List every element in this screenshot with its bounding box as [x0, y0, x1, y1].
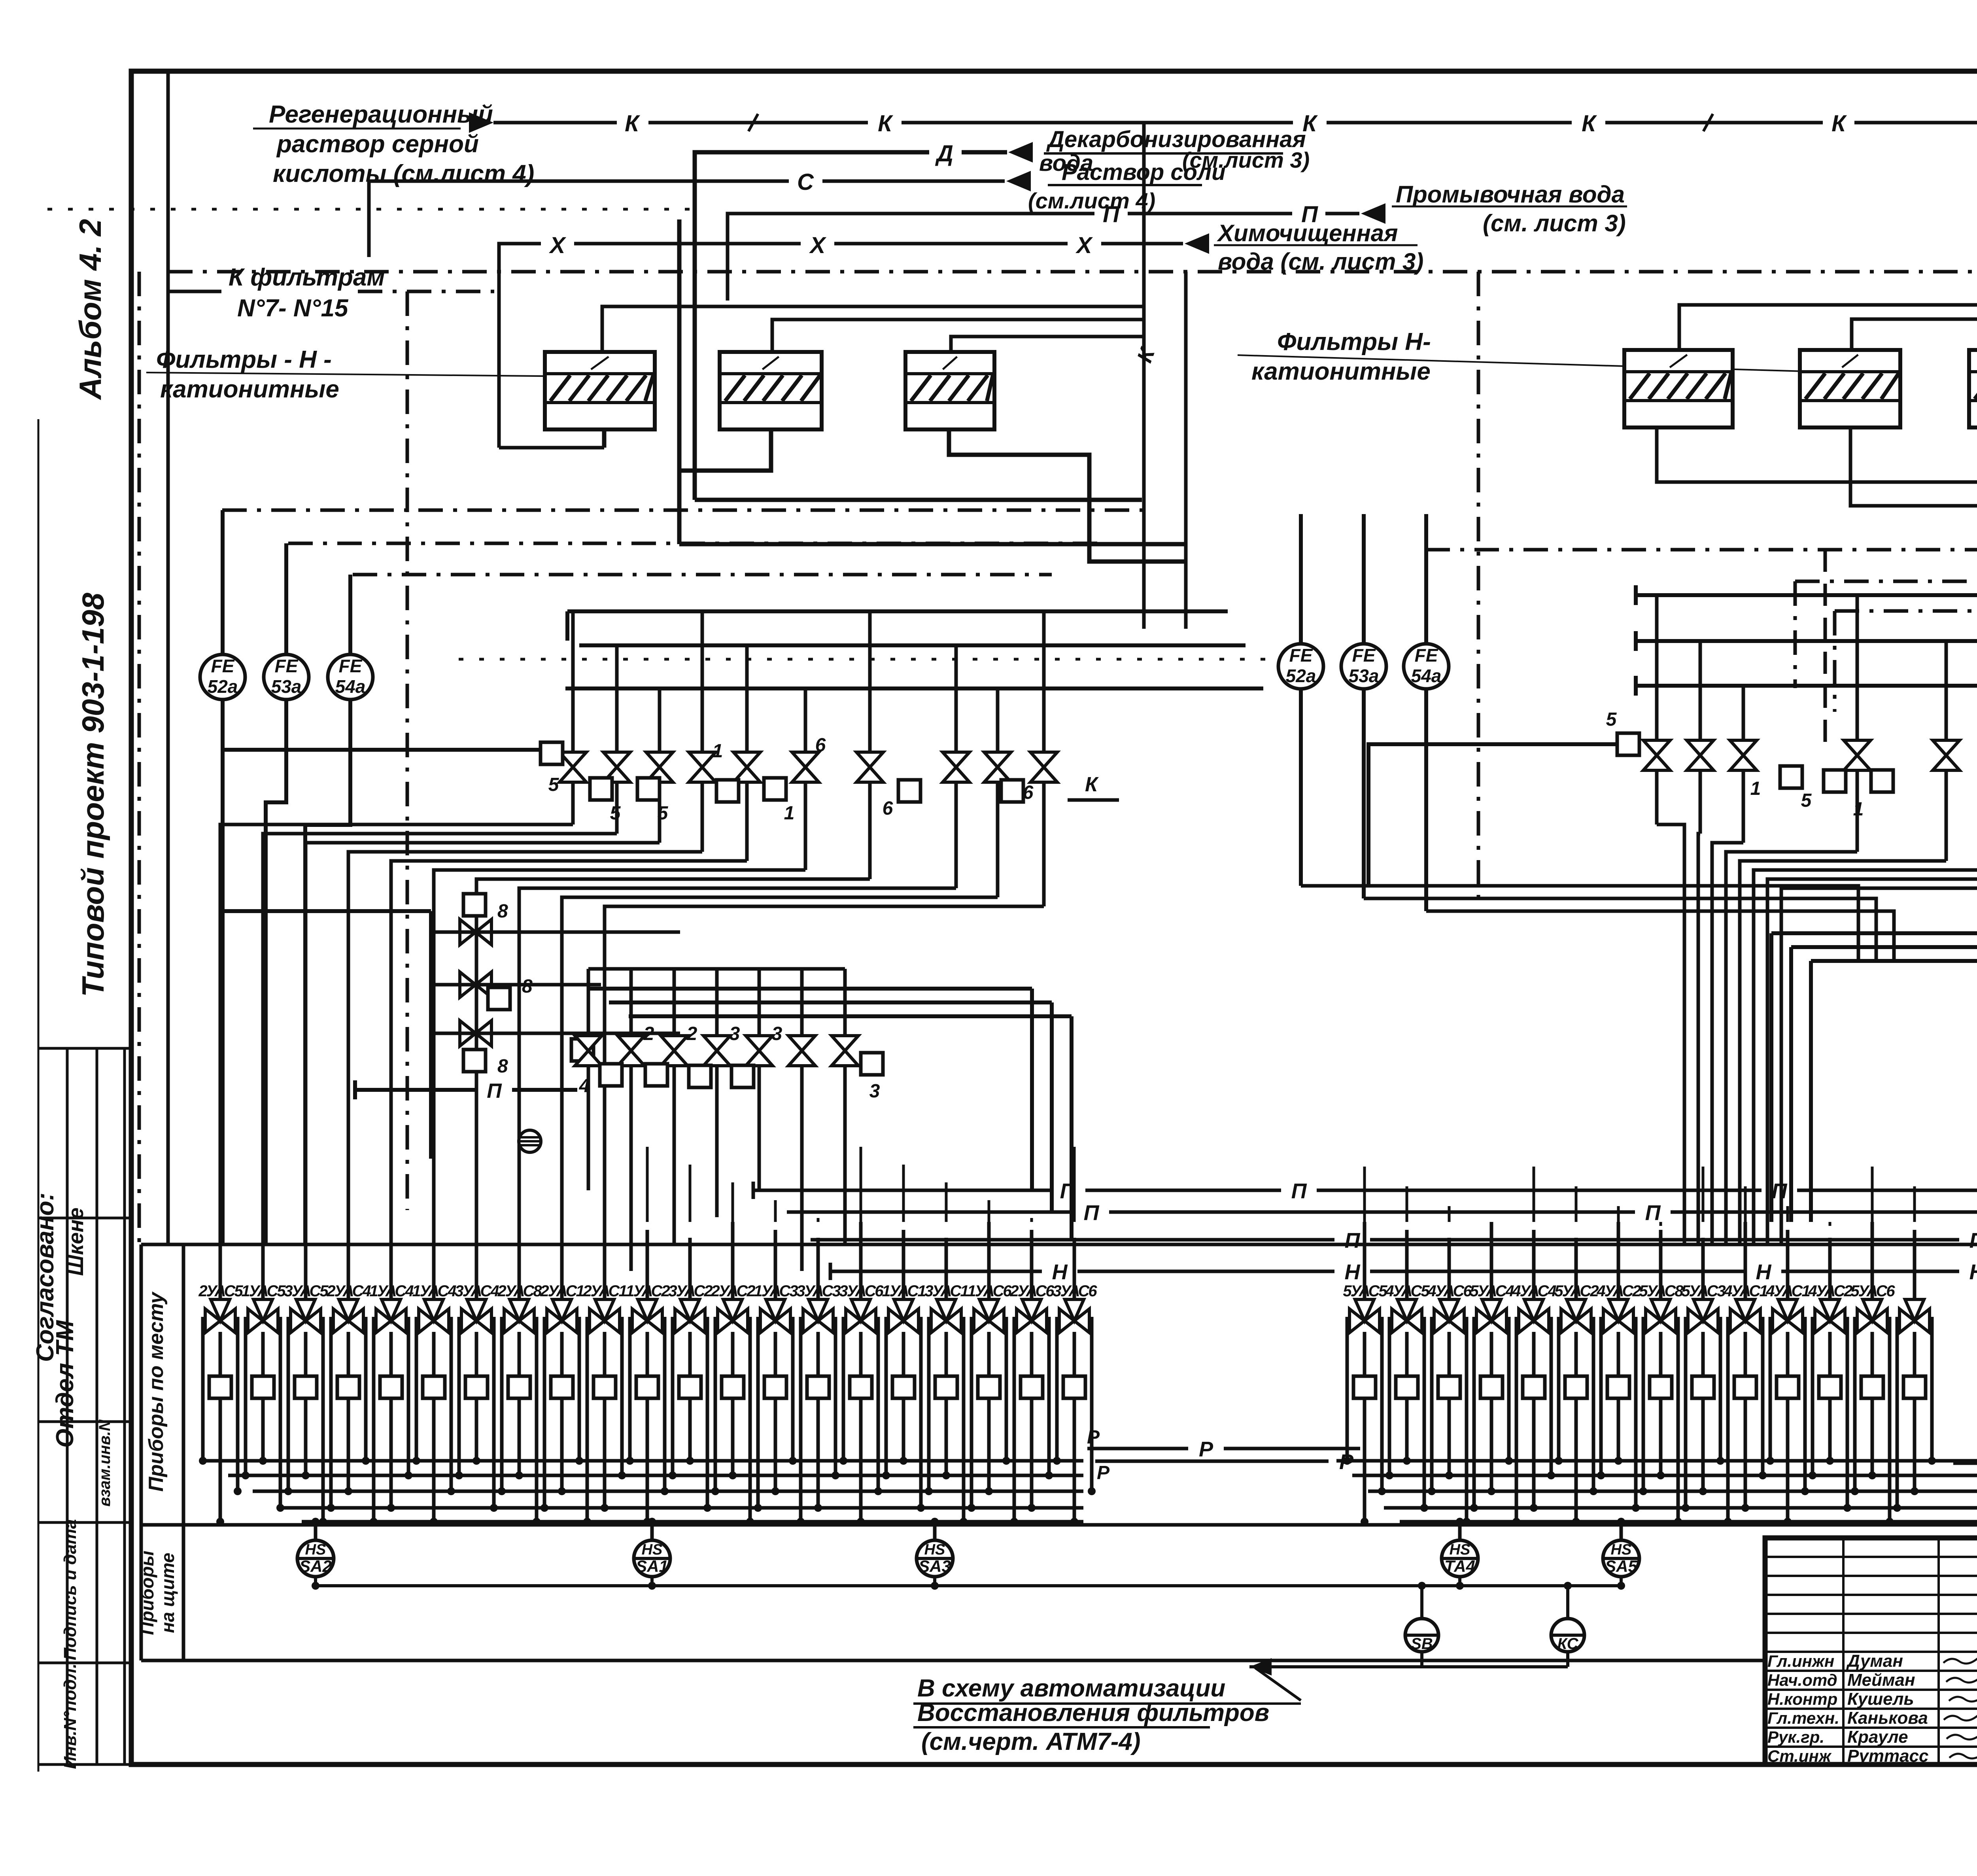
FE53a-1 line: [266, 543, 286, 1244]
stair rband1 4: [1740, 861, 1946, 1244]
svg-text:Н: Н: [1345, 1260, 1361, 1284]
sq8 L2: [488, 987, 510, 1010]
svg-text:Регенерационный: Регенерационный: [269, 101, 493, 128]
stair rband1 3: [1726, 852, 1857, 1244]
bus left 3: [277, 1506, 1083, 1510]
svg-text:Д: Д: [935, 141, 953, 166]
rband1 drop 4: [1945, 770, 1948, 861]
valve band1 2: [646, 752, 673, 782]
svg-text:Н: Н: [1969, 1260, 1977, 1284]
stair rband1 0: [1657, 825, 1684, 1244]
valve band2 6: [832, 1036, 858, 1066]
svg-text:Химочищенная: Химочищенная: [1217, 220, 1398, 246]
HS stub SA1: [650, 1576, 654, 1586]
svg-text:ТА4: ТА4: [1444, 1557, 1475, 1575]
title sig row 8: [1765, 1708, 1977, 1710]
svg-text:SA5: SA5: [1605, 1557, 1637, 1575]
svg-text:Ст.инж: Ст.инж: [1767, 1747, 1832, 1765]
title sig row 4: [1765, 1632, 1977, 1634]
svg-text:Фильтры - Н -: Фильтры - Н -: [156, 346, 332, 373]
valve rband1 0: [1643, 740, 1670, 770]
band1 feed 8: [996, 688, 1000, 753]
collector P3: [811, 1238, 1334, 1242]
band2 drop 4: [758, 1066, 761, 1190]
dashdot r1: [1795, 580, 1977, 583]
svg-text:Типовой проект 903-1-198: Типовой проект 903-1-198: [76, 592, 110, 997]
filter F3: [905, 352, 994, 429]
FE mid line 0: [1299, 514, 1303, 886]
svg-text:Руттасс: Руттасс: [1847, 1746, 1928, 1766]
band2 upper d1: [1030, 989, 1034, 1190]
rband1 feed 0: [1655, 595, 1659, 741]
sq8 L3: [463, 1050, 486, 1072]
collector c3: [565, 686, 1263, 690]
title sig col 2: [1937, 1538, 1940, 1764]
svg-text:К: К: [625, 111, 640, 136]
svg-text:5: 5: [610, 803, 621, 824]
svg-text:52а: 52а: [1286, 666, 1316, 686]
band1 drop 0: [571, 782, 575, 825]
rmid h3: [1811, 961, 1977, 1240]
svg-text:Альбом 4. 2: Альбом 4. 2: [73, 219, 108, 401]
stair rband1 2: [1712, 843, 1743, 1244]
F4 bottom pipe: [1657, 427, 1977, 1210]
band2 drop 0: [587, 1066, 590, 1190]
svg-text:(см.черт. АТМ7-4): (см.черт. АТМ7-4): [921, 1728, 1141, 1755]
svg-text:FE: FE: [211, 656, 235, 676]
svg-text:6: 6: [815, 735, 826, 756]
stair band1 4: [391, 861, 747, 1244]
collector N left end: [829, 1263, 832, 1280]
filter F4: [1624, 350, 1733, 427]
valve band2 2: [661, 1036, 688, 1066]
rcollector c2: [1636, 639, 1977, 643]
K downfeed left2: [1184, 272, 1188, 629]
band2 drop 3: [715, 1066, 719, 1217]
svg-text:2: 2: [643, 1023, 654, 1044]
svg-text:1: 1: [1853, 799, 1864, 820]
dashdot st2: [288, 542, 1099, 545]
title sig row 9: [1765, 1727, 1977, 1729]
bottom valve R13: [1913, 1230, 1917, 1311]
title block outer: [1765, 1538, 1977, 1764]
HS stub SA3: [933, 1576, 936, 1586]
band1 feed 1: [615, 645, 619, 753]
svg-text:П: П: [1645, 1201, 1661, 1225]
dashdot frame vert: [138, 272, 141, 1244]
svg-text:3: 3: [772, 1023, 782, 1044]
band1 sq g: [1001, 780, 1023, 802]
bus right 2: [1368, 1490, 1977, 1493]
HS drop ТА4: [1458, 1522, 1462, 1540]
pipe K seg 2: [902, 121, 1293, 125]
stair band1 3: [348, 852, 702, 1244]
svg-text:8: 8: [497, 901, 508, 922]
stair rband1 5: [1754, 870, 1977, 1244]
FE mid line 1: [1362, 514, 1366, 898]
stair rband1 7: [1781, 888, 1977, 1244]
dash vert k1: [1824, 550, 1827, 743]
bus right 4: [1400, 1520, 1977, 1524]
rband1 feed 2: [1742, 686, 1745, 741]
arrow avto: [1249, 1658, 1272, 1676]
stair band1 5: [434, 870, 805, 1244]
valve band1 1: [603, 752, 630, 782]
valve band1 9: [1030, 752, 1057, 782]
band1 drop 5: [804, 782, 807, 870]
margin col line B: [96, 1048, 98, 1764]
pipe K seg 3: [1327, 121, 1572, 125]
band2 drop 1: [629, 1066, 633, 1271]
svg-text:8: 8: [497, 1056, 508, 1077]
arrow C: [1006, 171, 1031, 191]
arrow D: [1008, 142, 1033, 163]
svg-text:HS: HS: [1450, 1541, 1470, 1558]
collector K2 right: [1852, 319, 1977, 443]
svg-text:Шкене: Шкене: [64, 1208, 88, 1276]
collector R2: [1095, 1460, 1329, 1463]
title sig row 6: [1765, 1670, 1977, 1672]
band2 feed 0: [587, 969, 590, 1036]
X wrap to F1: [499, 446, 604, 450]
svg-text:SA1: SA1: [636, 1557, 668, 1575]
pipe K seg 1: [648, 121, 868, 125]
svg-text:Гл.техн.: Гл.техн.: [1767, 1709, 1839, 1727]
filter F6: [1969, 350, 1977, 427]
band1 feed 7: [954, 645, 958, 753]
dashdot vert mid: [1477, 272, 1480, 906]
sheet edge left: [38, 419, 40, 1772]
stair band1 2: [306, 843, 660, 1244]
FE54a-1 line: [305, 575, 350, 1244]
stair rband1 6: [1767, 879, 1977, 1244]
svg-text:FE: FE: [1352, 645, 1376, 666]
svg-text:HS: HS: [642, 1541, 663, 1558]
svg-text:53а: 53а: [1349, 666, 1379, 686]
rcollector c3: [1636, 684, 1977, 688]
valve band1 8: [984, 752, 1011, 782]
instrument FE54a-2: [1404, 644, 1449, 689]
valve band2 3: [703, 1036, 730, 1066]
pipe K seg 0: [493, 121, 617, 125]
title sig row 3: [1765, 1613, 1977, 1615]
FE52a-1 line: [221, 510, 225, 1244]
margin row 4: [38, 1521, 131, 1524]
band1 feed 5: [804, 688, 807, 753]
svg-text:FE: FE: [1415, 645, 1438, 666]
valve rband1 4: [1933, 740, 1960, 770]
rband1 feed 4: [1945, 641, 1948, 741]
band1 drop 2: [658, 782, 662, 843]
valve rband1 3: [1844, 740, 1871, 770]
svg-text:П: П: [1772, 1179, 1788, 1203]
dashdot r2: [1835, 609, 1977, 613]
svg-text:1: 1: [713, 741, 723, 762]
striped circle left: [519, 1130, 541, 1152]
svg-text:В схему автоматизации: В схему автоматизации: [917, 1675, 1225, 1702]
margin row 5: [38, 1662, 131, 1664]
dashdot r1 tail: [1794, 581, 1797, 688]
rmid d2: [1789, 947, 1793, 1222]
stair band1 9: [605, 906, 1044, 1244]
instrument FE54a-1: [328, 654, 373, 700]
valve band1 6: [856, 752, 883, 782]
svg-text:Н.контр: Н.контр: [1767, 1690, 1837, 1708]
svg-text:С: С: [797, 169, 814, 195]
collector P2: [787, 1210, 1074, 1214]
HS stub SA5: [1620, 1576, 1623, 1586]
svg-text:Промывочная вода: Промывочная вода: [1396, 181, 1625, 208]
svg-text:Р: Р: [1097, 1462, 1110, 1483]
instrument FE52a-1: [200, 654, 245, 700]
valve band1 3: [689, 752, 716, 782]
margin col line A: [66, 1048, 69, 1764]
pipe P: [728, 214, 1094, 301]
FE mid line 2: [1424, 514, 1428, 911]
svg-text:6: 6: [883, 798, 893, 819]
pribory divider: [141, 1523, 1977, 1527]
valve band2 4: [746, 1036, 773, 1066]
valve band2 5: [788, 1036, 815, 1066]
dotted line upper: [47, 208, 692, 211]
valve8 L1: [460, 919, 491, 945]
bus left 1: [228, 1474, 1083, 1477]
feed texture left: [219, 1147, 222, 1222]
svg-text:FE: FE: [275, 656, 299, 676]
collector K1 right: [1679, 305, 1977, 350]
pipe8 L1: [431, 930, 680, 934]
band1 sq f: [898, 780, 920, 802]
band1 drop 7: [954, 782, 958, 888]
rband1 sq5: [1617, 733, 1639, 755]
stair band1 7: [519, 888, 956, 1244]
svg-text:Рук.гр.: Рук.гр.: [1767, 1728, 1824, 1746]
svg-text:П: П: [1345, 1229, 1361, 1252]
SB KC bottom: [1249, 1665, 1568, 1668]
svg-text:П: П: [1103, 202, 1120, 227]
collector K1 left: [602, 306, 1144, 352]
band2 drop 2: [673, 1066, 676, 1244]
svg-text:Восстановления фильтров: Восстановления фильтров: [917, 1699, 1269, 1727]
rcollector c1: [1636, 593, 1977, 597]
dashdot st3: [353, 573, 1052, 577]
band1 sq d: [716, 780, 739, 802]
instrument HS/SA3: [917, 1540, 953, 1577]
svg-text:взам.инв.N: взам.инв.N: [96, 1419, 113, 1507]
band1 drop 4: [745, 782, 749, 861]
valve rband1 1: [1687, 740, 1714, 770]
svg-text:К: К: [1831, 111, 1847, 136]
svg-text:Канькова: Канькова: [1847, 1708, 1928, 1728]
title sig row 0: [1765, 1556, 1977, 1558]
svg-text:5: 5: [1606, 709, 1617, 730]
HS bottom line: [316, 1584, 1621, 1587]
collector c1 end: [565, 611, 569, 641]
svg-text:1: 1: [784, 803, 795, 824]
filter F5: [1800, 350, 1900, 427]
band2 sq5: [861, 1053, 883, 1075]
svg-text:катионитные: катионитные: [1251, 358, 1431, 385]
svg-text:Нач.отд: Нач.отд: [1767, 1671, 1837, 1689]
sq8 L1: [463, 894, 486, 916]
title sig col 1: [1842, 1538, 1845, 1764]
arrow regen: [469, 112, 493, 133]
HS stub ТА4: [1458, 1576, 1461, 1586]
margin row 3: [38, 1420, 131, 1423]
svg-text:54а: 54а: [1411, 666, 1442, 686]
pipe X: [499, 244, 541, 448]
dashdot main upper: [168, 270, 1977, 274]
band2 drop 5: [800, 1066, 804, 1271]
svg-text:кислоты (см.лист 4): кислоты (см.лист 4): [273, 160, 534, 187]
band2 upper d3: [1070, 1016, 1074, 1240]
valve band1 5: [792, 752, 819, 782]
dotted mid line: [459, 658, 1281, 661]
band2 upper h3: [629, 1014, 1072, 1018]
F3 bottom pipe: [949, 429, 1186, 562]
svg-text:П: П: [1969, 1229, 1977, 1252]
stair band1 6: [476, 879, 870, 1244]
arrow P: [1361, 203, 1385, 224]
title sig row 2: [1765, 1594, 1977, 1596]
svg-text:Н: Н: [1756, 1260, 1772, 1284]
bus right 1: [1352, 1474, 1977, 1477]
band2 sq3: [689, 1065, 711, 1087]
stair band1 1: [263, 834, 617, 1244]
instrument FE53a-1: [264, 654, 309, 700]
feed texture right: [1363, 1167, 1366, 1222]
pipe D: [695, 152, 929, 500]
valve8 L3: [460, 1021, 491, 1046]
rmid h1: [1771, 933, 1977, 1190]
svg-text:Мейман: Мейман: [1847, 1670, 1915, 1690]
instrument HS/SA1: [634, 1540, 670, 1577]
svg-text:К: К: [1085, 773, 1099, 796]
feed to cluster8: [219, 909, 431, 913]
svg-text:Х: Х: [809, 233, 827, 258]
F5 bottom pipe: [1850, 427, 1977, 830]
title sig row 1: [1765, 1575, 1977, 1577]
band1 feed 6: [868, 611, 872, 753]
pipe K seg 4: [1605, 121, 1823, 125]
rmid d3: [1809, 961, 1813, 1222]
rband1 drop 0: [1655, 770, 1659, 825]
rband1 sqc: [1871, 770, 1893, 792]
instrument HS/ТА4: [1442, 1540, 1478, 1577]
band1 feed 0: [571, 611, 575, 753]
svg-text:52а: 52а: [208, 676, 238, 697]
band2 feed 6: [843, 969, 847, 1036]
band1 feed 9: [1042, 611, 1046, 753]
HS drop SA3: [933, 1522, 937, 1540]
rband1 drop 2: [1742, 770, 1745, 843]
band2 feed 5: [800, 969, 804, 1036]
rmid h2: [1791, 947, 1977, 1212]
HS drop SA5: [1620, 1522, 1623, 1540]
dashdot vertical left: [406, 291, 409, 1210]
bus right 0: [1336, 1459, 1977, 1463]
F2 bottom pipe: [679, 429, 771, 471]
pipe C: [369, 181, 789, 257]
stub4 left: [571, 1039, 593, 1061]
band1 feed 4: [745, 645, 749, 753]
svg-text:Крауле: Крауле: [1847, 1727, 1908, 1747]
collector c2: [579, 643, 1246, 647]
pipe K seg 5: [1854, 121, 1977, 125]
svg-text:КС: КС: [1557, 1635, 1579, 1653]
margin row 2: [38, 1217, 131, 1220]
K downfeed left: [1142, 123, 1146, 629]
rband1 feed 3: [1856, 595, 1859, 741]
svg-text:HS: HS: [924, 1541, 945, 1558]
svg-text:К фильтрам: К фильтрам: [229, 264, 385, 291]
band1 K stub: [1068, 798, 1119, 802]
svg-text:на щите: на щите: [157, 1553, 178, 1633]
bus right 3: [1384, 1506, 1977, 1510]
valve band2 0: [575, 1036, 602, 1066]
instrument KC: [1551, 1619, 1584, 1652]
svg-text:Приборы: Приборы: [137, 1551, 157, 1635]
tick K 4320: [1703, 114, 1713, 131]
svg-text:Фильтры Н-: Фильтры Н-: [1277, 328, 1431, 356]
SB KC feeds: [1420, 1586, 1423, 1619]
margin row 1: [38, 1047, 131, 1050]
HS drop SA2: [314, 1522, 318, 1540]
svg-text:(см.лист 4): (см.лист 4): [1028, 188, 1155, 213]
svg-text:Приборы по месту: Приборы по месту: [145, 1291, 168, 1492]
svg-text:FE: FE: [339, 656, 363, 676]
band2 sq4: [731, 1065, 754, 1087]
band1 sq b: [590, 778, 612, 800]
svg-text:Подпись и дата: Подпись и дата: [60, 1519, 80, 1660]
valve band1 4: [733, 752, 760, 782]
bus left 0: [204, 1459, 1083, 1463]
band1 sq c: [637, 778, 660, 800]
band2 upper h1: [588, 987, 1032, 991]
rband1 drop 3: [1856, 770, 1859, 852]
svg-text:П: П: [1084, 1201, 1100, 1225]
pribory box left: [140, 1244, 143, 1660]
collector K2 left: [772, 320, 1144, 352]
svg-text:Думан: Думан: [1846, 1651, 1903, 1671]
margin col line C: [123, 1048, 126, 1764]
band2 sq1: [600, 1064, 622, 1086]
pipe8 L3: [431, 1032, 680, 1035]
bus left 2: [253, 1490, 1083, 1493]
HS drop SA1: [650, 1522, 654, 1540]
band2 upper h2: [609, 1000, 1052, 1004]
band1 drop 9: [1042, 782, 1046, 906]
valve rband1 2: [1730, 740, 1757, 770]
svg-text:HS: HS: [1611, 1541, 1632, 1558]
title sig row 7: [1765, 1689, 1977, 1691]
collector K3 left: [951, 337, 1144, 352]
svg-text:SA2: SA2: [299, 1557, 332, 1575]
svg-text:53а: 53а: [271, 676, 302, 697]
svg-text:Р: Р: [1199, 1437, 1213, 1461]
pribory bottom: [141, 1659, 1765, 1662]
svg-text:Гл.инжн: Гл.инжн: [1767, 1652, 1834, 1670]
svg-text:П: П: [487, 1080, 502, 1103]
rband1 sqa: [1780, 766, 1802, 788]
svg-text:Инв.N°подл.: Инв.N°подл.: [60, 1664, 80, 1769]
svg-text:HS: HS: [305, 1541, 326, 1558]
collector P1 left end: [752, 1182, 755, 1199]
HS stub SA2: [314, 1576, 317, 1586]
instrument HS/SA2: [297, 1540, 334, 1577]
svg-text:(см. лист 3): (см. лист 3): [1483, 210, 1626, 236]
filter F2: [720, 352, 822, 429]
